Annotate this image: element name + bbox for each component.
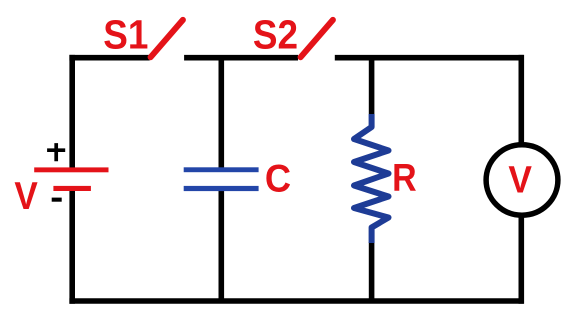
wire left vertical upper (top corner to battery + plate) xyxy=(69,55,75,168)
wire resistor branch upper xyxy=(369,57,375,114)
voltmeter label V xyxy=(508,158,532,200)
wire left vertical lower (battery - plate to bottom corner) xyxy=(69,191,75,304)
wire bottom segment xyxy=(69,298,523,304)
capacitor label C xyxy=(265,156,291,199)
switch S2 blade xyxy=(301,20,333,57)
svg-text:V: V xyxy=(14,173,38,217)
battery plus sign xyxy=(47,143,65,161)
wire top segment left (from left corner to switch S1) xyxy=(69,55,149,61)
wire resistor branch lower xyxy=(369,242,375,301)
switch S1 blade xyxy=(151,20,183,57)
battery V negative plate xyxy=(53,186,91,191)
wire voltmeter branch upper xyxy=(518,55,524,146)
svg-text:V: V xyxy=(508,158,532,200)
switch S2 label xyxy=(253,13,298,58)
wire top segment right (from S2 to top-right corner) xyxy=(335,55,524,61)
battery minus sign xyxy=(52,198,62,202)
svg-text:S2: S2 xyxy=(253,13,298,58)
resistor R zigzag xyxy=(354,114,389,243)
capacitor C top plate xyxy=(184,167,259,172)
wire voltmeter branch lower xyxy=(518,214,524,304)
battery label V xyxy=(14,173,38,217)
svg-text:R: R xyxy=(392,155,417,199)
switch S1 label xyxy=(103,13,148,58)
capacitor C bottom plate xyxy=(184,186,259,191)
wire top segment middle (between S1 and S2) xyxy=(184,55,298,61)
wire capacitor branch lower xyxy=(219,191,225,301)
battery V positive plate xyxy=(34,167,108,172)
wire capacitor branch upper xyxy=(219,57,225,168)
svg-text:C: C xyxy=(265,156,291,199)
svg-text:S1: S1 xyxy=(103,13,148,58)
resistor label R xyxy=(392,155,417,199)
voltmeter U1 circle xyxy=(486,145,558,215)
